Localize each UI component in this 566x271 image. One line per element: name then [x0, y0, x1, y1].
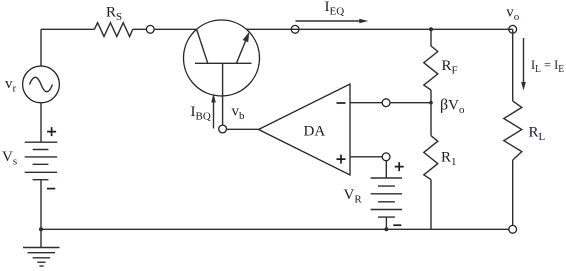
plus sign at V_s top: [47, 127, 56, 136]
svg-text:DA: DA: [304, 124, 326, 140]
resistor R_S: [94, 23, 132, 37]
wire R_L to bottom node: [512, 160, 514, 225]
junction dot left rail: [39, 227, 43, 231]
transistor base lead: [222, 63, 224, 125]
wire V_s to ground: [40, 180, 42, 248]
resistor R_L: [504, 101, 522, 160]
bottom rail wire: [41, 228, 509, 230]
wire source to battery: [40, 103, 42, 142]
current arrow I_BQ: [213, 99, 215, 129]
battery V_R: [371, 178, 403, 217]
op-amp minus sign: [337, 102, 346, 104]
node terminal v_o: [509, 25, 517, 33]
node terminal v_b: [219, 125, 227, 133]
op-amp plus sign: [337, 155, 346, 164]
wire source top vertical: [40, 29, 42, 66]
minus sign at V_R bottom: [393, 224, 401, 226]
node terminal on plus line: [382, 153, 390, 161]
wire plus node down to V_R battery: [385, 161, 387, 178]
op-amp U1 triangle: [259, 84, 351, 175]
battery V_s: [25, 142, 58, 180]
transistor emitter line with arrow: [236, 40, 246, 64]
junction dot V_R at rail: [384, 227, 388, 231]
wire V_R to bottom rail: [385, 217, 387, 229]
transistor collector line: [197, 30, 208, 64]
current arrow I_L: [523, 38, 525, 85]
wire R_1 to bottom rail: [430, 180, 432, 230]
node terminal on top rail: [291, 25, 299, 33]
resistor R_F: [424, 46, 438, 90]
junction dot at R_F branch: [429, 27, 433, 31]
transistor base bar: [195, 62, 252, 64]
current arrow I_EQ: [296, 20, 364, 22]
AC source v_r circle: [23, 66, 60, 103]
minus sign at V_s bottom: [47, 188, 55, 190]
wire op-amp minus output line: [350, 102, 382, 104]
wire op-amp plus input line: [350, 156, 382, 158]
node terminal bottom right: [509, 225, 517, 233]
resistor R_1: [424, 136, 438, 180]
ground: [23, 247, 60, 249]
plus sign at V_R top: [395, 162, 404, 171]
node terminal on minus line: [382, 99, 390, 107]
wire R_F branch from top rail: [430, 29, 432, 46]
node terminal after R_S: [146, 25, 154, 33]
wire transistor to v_o (top rail right): [246, 28, 512, 30]
wire R_S to terminal node: [133, 28, 147, 30]
junction dot at beta-Vo node: [429, 101, 433, 105]
AC source sine wave: [30, 77, 53, 92]
wire v_b node to op-amp input apex: [227, 128, 259, 130]
wire minus node to R_F branch: [390, 102, 431, 104]
wire v_o down to R_L: [512, 29, 514, 101]
transistor Q1 body circle: [184, 20, 260, 96]
wire top rail left segment (source corner to R_S): [41, 28, 94, 30]
wire terminal to transistor: [154, 28, 197, 30]
wire R_F to R_1 through junction: [430, 90, 432, 136]
